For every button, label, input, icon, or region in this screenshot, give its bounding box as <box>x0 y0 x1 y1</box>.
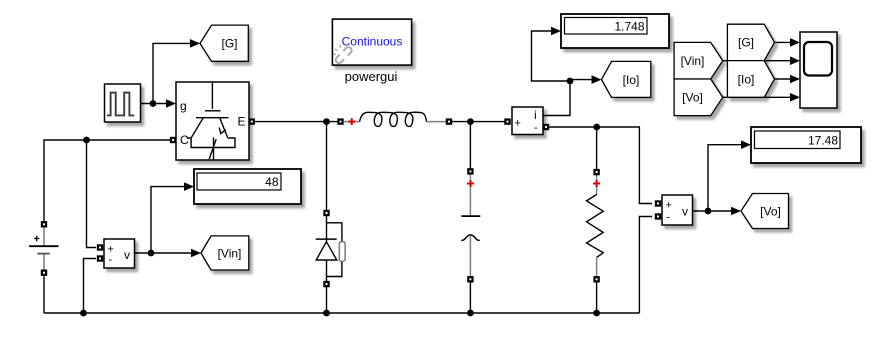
wire from [G] to scope <box>775 41 794 43</box>
from tag [Io] <box>727 61 774 98</box>
port resistor top <box>593 169 599 175</box>
svg-text:v: v <box>682 205 688 219</box>
node load top junction <box>593 124 600 131</box>
arrow into [Io] goto <box>592 75 602 84</box>
voltage measurement V1 (Vin) <box>104 239 135 268</box>
goto tag [Io] <box>602 61 651 97</box>
display 1.748 <box>561 14 669 48</box>
wire from [Vin] to scope <box>723 60 793 62</box>
port square white centers <box>43 121 659 286</box>
node gate junction <box>150 100 157 107</box>
wire inductor right to current measurement <box>452 121 505 123</box>
wire voltmeter - to bottom rail <box>84 259 97 314</box>
inductor L1 <box>344 112 446 126</box>
port inductor left <box>337 118 343 124</box>
svg-text:-: - <box>667 212 671 224</box>
port diode bottom <box>323 281 329 287</box>
wire cap node down to capacitor <box>469 122 471 169</box>
goto tag [Vo] <box>741 194 789 229</box>
svg-text:-: - <box>534 122 538 134</box>
port IGBT E <box>249 118 255 124</box>
broken link icon <box>333 45 353 65</box>
wire Vo voltmeter output to [Vo] goto <box>692 210 734 212</box>
voltage measurement V2 (Vo) <box>662 195 693 225</box>
port IGBT C <box>170 137 176 143</box>
wire Vin voltmeter output to [Vin] goto <box>135 252 195 254</box>
svg-text:+: + <box>515 118 521 130</box>
wire resistor bottom to rail <box>596 283 598 314</box>
wire ammeter - to load node <box>549 126 597 128</box>
red plus inductor <box>348 118 355 125</box>
svg-text:[G]: [G] <box>221 37 237 51</box>
svg-text:-: - <box>109 254 113 266</box>
wire gate junction up to [G] goto <box>153 43 194 103</box>
display 17.48 <box>751 127 861 163</box>
from tag [G] <box>727 24 774 60</box>
node cap bottom junction <box>467 310 474 317</box>
svg-text:48: 48 <box>265 175 279 189</box>
goto tag [G] <box>200 25 248 61</box>
arrow into [G] goto <box>190 39 200 48</box>
wire IGBT C to left rail <box>44 140 172 221</box>
pulse generator P1 <box>105 84 141 122</box>
node Vo signal junction <box>705 208 712 215</box>
svg-text:Continuous: Continuous <box>342 35 403 49</box>
wire load node down to resistor <box>596 127 598 169</box>
powergui block <box>332 19 411 84</box>
goto tag [Vin] <box>201 236 249 270</box>
wire ammeter i output to display 1.748 <box>532 31 571 116</box>
svg-text:v: v <box>124 248 130 262</box>
from tag [Vo] <box>674 79 723 116</box>
port inductor right <box>446 118 452 124</box>
arrows into scope <box>790 38 800 47</box>
svg-text:[Vo]: [Vo] <box>760 204 781 218</box>
port battery top <box>41 221 47 227</box>
arrow into [Vin] goto <box>191 249 201 258</box>
arrow into display 17.48 <box>741 140 751 149</box>
port voltmeter V2 - <box>655 213 661 219</box>
wire load node to Vo voltmeter + <box>597 127 652 204</box>
svg-text:powergui: powergui <box>345 69 398 84</box>
diode D1 with snubber <box>316 213 345 281</box>
svg-text:[Vo]: [Vo] <box>682 91 703 105</box>
port voltmeter V1 - <box>97 255 103 261</box>
port capacitor top <box>467 168 473 174</box>
svg-text:[Vin]: [Vin] <box>681 54 705 68</box>
node diode bottom junction <box>323 310 330 317</box>
IGBT U1 <box>176 82 249 160</box>
wire capacitor bottom to rail <box>469 283 471 314</box>
port voltmeter V1 + <box>97 244 103 250</box>
display 48 <box>194 169 301 204</box>
load resistor R1 <box>587 175 604 277</box>
wire inductor node down to diode <box>326 122 328 210</box>
wire C-node down to voltmeter + <box>87 140 97 248</box>
svg-text:g: g <box>180 99 187 113</box>
scope <box>800 32 837 108</box>
svg-text:17.48: 17.48 <box>808 133 838 147</box>
port diode top <box>323 210 329 216</box>
svg-text:i: i <box>534 108 537 122</box>
arrow into [Vo] goto <box>731 207 741 216</box>
node i-signal junction <box>567 78 574 85</box>
wire Vin node up to display 48 <box>151 187 187 253</box>
wire from [Vo] to scope <box>723 96 793 98</box>
svg-text:E: E <box>238 115 246 129</box>
red plus resistor <box>593 180 600 187</box>
signal arrowheads <box>166 27 800 258</box>
svg-text:[Io]: [Io] <box>623 73 640 87</box>
node resistor bottom junction <box>593 310 600 317</box>
node rail left junction <box>80 310 87 317</box>
capacitor C1 <box>461 175 480 277</box>
DC voltage source B1 <box>29 228 59 271</box>
wire from [Io] to scope <box>775 78 794 80</box>
wire bottom rail up to Vo voltmeter - <box>639 217 652 314</box>
wire Vo node up to display 17.48 <box>708 145 744 211</box>
wire pulse generator to IGBT gate <box>141 103 169 105</box>
node cap top junction <box>467 118 474 125</box>
svg-text:[G]: [G] <box>738 36 754 50</box>
svg-text:[Io]: [Io] <box>738 72 755 86</box>
port ammeter - <box>543 124 549 130</box>
port squares <box>41 118 661 287</box>
arrow into display 1.748 <box>551 27 561 36</box>
svg-text:C: C <box>180 133 189 147</box>
wire i node to [Io] goto <box>570 79 595 81</box>
svg-text:1.748: 1.748 <box>614 19 644 33</box>
node diode top junction <box>323 118 330 125</box>
wire battery bottom to ground rail <box>43 276 45 313</box>
wire IGBT E to inductor node <box>255 121 338 123</box>
port ammeter + <box>504 118 510 124</box>
bottom ground rail <box>44 312 639 314</box>
svg-text:[Vin]: [Vin] <box>218 246 242 260</box>
node Vin measure junction <box>148 250 155 257</box>
from tag [Vin] <box>674 42 723 79</box>
current measurement A1 <box>512 107 543 135</box>
port resistor bottom <box>593 276 599 282</box>
port battery bottom <box>41 270 47 276</box>
node C-wire junction <box>83 137 90 144</box>
arrow into IGBT g <box>166 99 176 108</box>
port voltmeter V2 + <box>655 200 661 206</box>
arrow into display 48 <box>184 182 194 191</box>
red plus capacitor <box>467 180 474 187</box>
port capacitor bottom <box>467 276 473 282</box>
wire diode bottom to rail <box>326 287 328 313</box>
svg-text:+: + <box>666 200 672 212</box>
